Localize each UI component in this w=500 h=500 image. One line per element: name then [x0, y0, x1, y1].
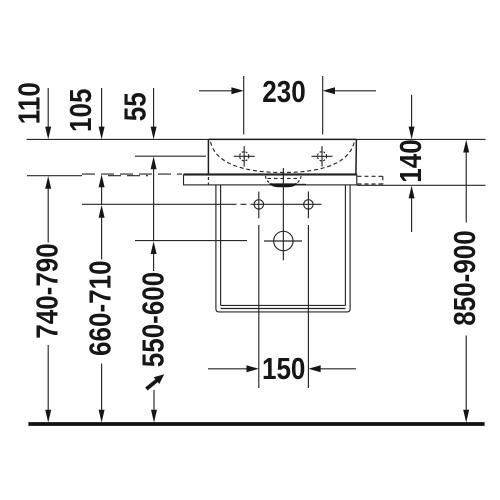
- svg-text:550-600: 550-600: [137, 272, 172, 368]
- svg-text:660-710: 660-710: [83, 260, 118, 356]
- svg-text:55: 55: [119, 92, 154, 121]
- svg-text:110: 110: [12, 82, 47, 124]
- svg-text:850-900: 850-900: [448, 230, 483, 326]
- svg-text:105: 105: [64, 89, 99, 132]
- svg-text:150: 150: [262, 352, 305, 387]
- svg-text:230: 230: [262, 75, 305, 110]
- svg-text:740-790: 740-790: [30, 243, 65, 339]
- svg-text:140: 140: [394, 139, 429, 182]
